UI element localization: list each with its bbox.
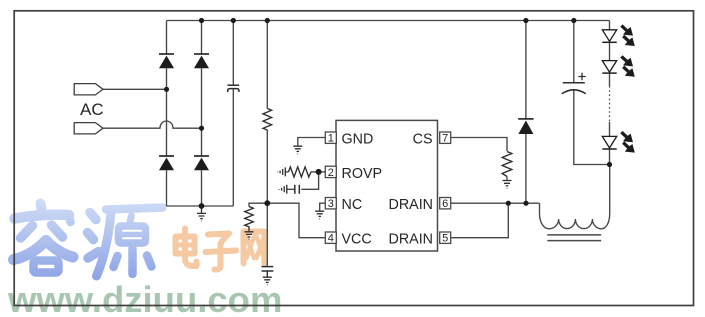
diode D4: [194, 156, 209, 170]
wire R1 column: [266, 21, 268, 204]
capacitor C2 electrolytic: [562, 83, 586, 94]
diode D1: [159, 54, 174, 68]
node dot VCC junction: [264, 200, 270, 206]
ground G6 (R4 CS): [503, 181, 512, 189]
diode D2: [194, 54, 209, 68]
node dot ROVP junction: [316, 169, 322, 175]
node dot AC2: [199, 126, 204, 131]
ground G1 (bridge): [197, 206, 206, 221]
wire LED chain dotted segment: [609, 86, 611, 122]
node dot AC1: [164, 87, 169, 92]
svg-text:3: 3: [328, 198, 334, 210]
watermark char DIAN (peach): [176, 229, 197, 267]
LED2 emission arrows: [621, 56, 633, 66]
pin 7 box: [440, 132, 451, 145]
wire pin7 to R4: [451, 138, 507, 152]
LED1: [602, 30, 616, 43]
inductor L1: [540, 165, 610, 229]
capacitor C4 (ROVP): [295, 185, 300, 194]
inductor core lines: [547, 235, 601, 241]
svg-text:GND: GND: [342, 132, 374, 148]
wire ROVP resistor to pin 2: [311, 171, 325, 173]
AC connector 2: [74, 123, 103, 134]
svg-text:2: 2: [328, 167, 334, 179]
svg-text:www.dziuu.com: www.dziuu.com: [7, 279, 282, 317]
wire bridge left column: [166, 21, 168, 207]
LED2: [602, 61, 616, 74]
node dot drain node 2: [523, 201, 528, 206]
ground G8 (C4 left, rotated): [279, 185, 287, 194]
wire bridge bottom: [167, 205, 234, 207]
wire pin6 to node: [451, 202, 509, 204]
ground G7 (R2 left, rotated): [278, 167, 286, 176]
wire D5 column: [525, 21, 527, 204]
wire top rail: [167, 20, 610, 22]
LED3: [602, 136, 616, 149]
AC connector 1: [74, 84, 103, 95]
wire AC line 2 with hop: [103, 121, 202, 128]
wire C2 column top: [573, 21, 575, 83]
pin 6 box: [440, 198, 451, 211]
resistor R3: [245, 207, 254, 232]
node dot bridge bottom: [199, 203, 205, 209]
pin 5 box: [440, 232, 451, 245]
wire junction to C3: [266, 203, 268, 266]
node dot LED bottom: [607, 162, 612, 167]
watermark char ZI (peach): [206, 234, 237, 270]
diode D3: [159, 156, 174, 170]
svg-text:4: 4: [328, 233, 334, 245]
pin 1 box: [325, 132, 336, 145]
svg-text:5: 5: [442, 233, 448, 245]
pin 3 box: [325, 198, 336, 211]
node dot rail-R1: [265, 18, 270, 23]
C2 plus sign: [578, 73, 585, 80]
ground G2 (pin1 GND): [293, 146, 302, 154]
wire bridge right column: [201, 21, 203, 207]
wire junction to VCC pin 4: [267, 203, 325, 238]
watermark char RONG (blue): [14, 204, 74, 273]
node dot rail-D5: [523, 18, 528, 23]
LED1 emission arrows: [621, 26, 633, 36]
svg-text:AC: AC: [80, 100, 104, 119]
watermark char WANG (peach): [244, 232, 265, 264]
svg-text:ROVP: ROVP: [342, 166, 383, 182]
wire LED chain segments: [609, 21, 611, 165]
node dot rail-C2: [571, 18, 576, 23]
wire R4 to ground stub: [506, 177, 508, 181]
ground G4 (R3): [245, 232, 254, 240]
resistor R1: [263, 109, 272, 131]
svg-text:VCC: VCC: [342, 232, 372, 248]
wire pin5 up to node: [451, 203, 509, 238]
IC U1 body: [336, 120, 438, 251]
wire AC line 1: [103, 88, 167, 90]
resistor R4 (CS): [502, 152, 512, 177]
LED3 emission arrows: [621, 132, 633, 142]
node dot rail-C1: [231, 18, 236, 23]
svg-text:6: 6: [442, 198, 448, 210]
watermark char YUAN (blue): [88, 208, 163, 277]
diode D5: [518, 119, 533, 134]
ground G5 (C3): [263, 277, 272, 285]
svg-text:NC: NC: [342, 197, 363, 213]
svg-text:1: 1: [328, 133, 334, 145]
wire junction to R3: [249, 203, 267, 206]
svg-text:DRAIN: DRAIN: [389, 197, 433, 213]
node dot drain node 1: [506, 201, 511, 206]
wire C4 left plate to ground stub: [287, 188, 295, 190]
pin 4 box: [325, 232, 336, 245]
capacitor C3: [262, 267, 274, 277]
wire pin3 to ground: [320, 203, 326, 210]
wire R2 left stub: [286, 171, 289, 173]
wire node to inductor: [508, 202, 539, 204]
svg-text:CS: CS: [413, 132, 433, 148]
capacitor C1: [228, 85, 240, 92]
wire pin1 to ground: [298, 138, 326, 146]
svg-text:DRAIN: DRAIN: [389, 232, 433, 248]
pin 2 box: [325, 166, 336, 179]
node dot rail-bridge: [199, 18, 204, 23]
ground G3 (pin3 NC): [315, 211, 324, 219]
wire C1 column: [232, 21, 234, 207]
svg-text:7: 7: [442, 133, 448, 145]
wire ROVP junction to C4: [301, 172, 318, 189]
wire C2 bottom to LED chain bottom node: [574, 91, 610, 165]
resistor R2 (ROVP): [289, 167, 312, 177]
